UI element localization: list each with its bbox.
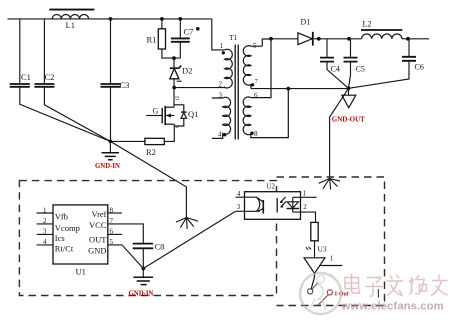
- svg-text:C8: C8: [155, 242, 165, 252]
- pin 3 Ics: [37, 233, 53, 235]
- svg-text:S: S: [173, 125, 179, 128]
- wire C3 vertical: [110, 19, 112, 141]
- phototransistor: [245, 197, 263, 213]
- dashed box output regulation section (right): [277, 177, 385, 306]
- ground GND-OUT (open triangle): [348, 88, 350, 95]
- svg-text:1: 1: [43, 206, 47, 214]
- resistor R1: [158, 29, 165, 49]
- transformer T1 primary winding pins 1-2: [225, 49, 233, 88]
- svg-text:D2: D2: [182, 66, 192, 76]
- transistor Q1 (MOSFET with body diode): [162, 105, 186, 126]
- svg-text:1: 1: [330, 255, 334, 263]
- resistor R2: [145, 138, 164, 144]
- svg-text:Q1: Q1: [188, 109, 198, 119]
- svg-text:6: 6: [110, 228, 114, 236]
- svg-text:Vref: Vref: [91, 209, 106, 219]
- svg-text:7: 7: [110, 217, 114, 225]
- capacitor C5: [350, 39, 352, 58]
- capacitor C1: [10, 84, 30, 87]
- wire C7 top lead: [179, 19, 181, 38]
- svg-text:2: 2: [303, 204, 307, 211]
- inductor L2: [361, 19, 402, 39]
- svg-text:5: 5: [253, 42, 257, 50]
- inductor L1: [49, 9, 94, 30]
- svg-text:2: 2: [43, 217, 47, 225]
- svg-text:C4: C4: [331, 65, 340, 74]
- svg-text:6: 6: [254, 92, 258, 100]
- svg-text:GND-OUT: GND-OUT: [332, 115, 365, 123]
- resistor R3 (opto series): [311, 222, 318, 240]
- optocoupler U2: [236, 183, 317, 223]
- svg-text:C6: C6: [415, 63, 424, 72]
- wire primary pin2 rail: [174, 87, 224, 89]
- wire R3 to U3: [314, 241, 316, 258]
- svg-text:D: D: [174, 96, 180, 100]
- svg-text:3: 3: [219, 92, 223, 100]
- wire gate stub: [146, 115, 162, 117]
- wire GND-IN stub: [109, 141, 111, 152]
- watermark characters: [345, 274, 448, 296]
- wire C1 top lead: [19, 19, 21, 84]
- svg-text:C5: C5: [356, 65, 365, 74]
- ground GND-IN (under C8): [142, 269, 144, 278]
- wire source to R2: [164, 124, 174, 141]
- capacitor C3: [101, 84, 121, 87]
- svg-text:8: 8: [110, 206, 114, 214]
- pin 6 OUT: [108, 233, 122, 235]
- ground crow-foot (right): [319, 179, 341, 190]
- wire C2 bottom diagonal: [44, 87, 110, 141]
- wire GND-OUT node down to crow-foot: [330, 88, 349, 178]
- svg-text:L1: L1: [66, 20, 75, 30]
- svg-text:R2: R2: [146, 147, 156, 157]
- svg-text:R1: R1: [147, 35, 157, 45]
- svg-text:Vfb: Vfb: [55, 212, 68, 222]
- terminal circle (U3 anode): [308, 289, 313, 294]
- svg-text:Rt/Ct: Rt/Ct: [55, 244, 74, 254]
- transformer T1 core: [235, 45, 238, 140]
- svg-text:VCC: VCC: [89, 220, 107, 230]
- wire artifact stub: [377, 289, 379, 298]
- svg-text:3: 3: [237, 204, 241, 211]
- ground GND-IN (input): [102, 153, 120, 160]
- capacitor C8: [133, 244, 153, 249]
- transformer T1 secondary winding pins 5-7: [243, 46, 262, 89]
- svg-text:GND-IN: GND-IN: [129, 291, 154, 298]
- svg-text:OUT: OUT: [89, 234, 107, 244]
- svg-text:U1: U1: [76, 267, 86, 277]
- svg-text:www.elecfans.com: www.elecfans.com: [341, 301, 444, 313]
- pin 2 lead down: [293, 212, 316, 222]
- svg-text:C1: C1: [21, 72, 31, 82]
- svg-text:C2: C2: [45, 72, 55, 82]
- svg-text:C7: C7: [184, 27, 194, 37]
- svg-text:5: 5: [110, 238, 114, 246]
- wire R1 C7 bottom join: [162, 43, 180, 59]
- LED emitter diode: [280, 197, 299, 212]
- pin 2 Vcomp: [37, 223, 53, 225]
- op-amp U1 (PWM controller box): [37, 205, 144, 277]
- pin 4 collector stub: [236, 196, 246, 198]
- shunt regulator U3 (TL431): [304, 247, 342, 289]
- wire D2 anode lead: [173, 58, 175, 68]
- svg-text:L2: L2: [363, 19, 372, 28]
- wire D2 to drain rail: [173, 79, 175, 107]
- transformer T1 secondary winding pins 3-4: [212, 97, 231, 138]
- svg-text:1: 1: [303, 191, 306, 198]
- svg-text:GND: GND: [88, 246, 106, 256]
- separator bar: [276, 198, 278, 213]
- wire opto emitter diagonal to GND junction: [143, 211, 235, 268]
- wire rail to D1: [271, 38, 298, 40]
- svg-text:1: 1: [220, 42, 224, 50]
- node junction dots top rail: [109, 17, 183, 143]
- svg-text:4: 4: [237, 191, 241, 198]
- diode D1: [298, 32, 313, 46]
- wire secondary common rail pins 7-8: [251, 88, 349, 90]
- wire R1 top lead: [161, 19, 163, 29]
- terminal circle (output): [327, 290, 332, 295]
- pin 3 emitter stub: [236, 210, 246, 212]
- watermark logo circle: [300, 273, 341, 314]
- dashed box feedback section (left): [19, 181, 276, 296]
- zener diode D2: [170, 66, 182, 82]
- capacitor C6: [408, 39, 410, 57]
- wire C2 top lead: [43, 19, 45, 84]
- pin 1 Vfb: [37, 212, 53, 214]
- wire terminal diagonal: [312, 283, 329, 306]
- pin 8 Vref: [108, 212, 122, 214]
- svg-text:C3: C3: [120, 80, 130, 90]
- capacitor C2: [34, 84, 54, 87]
- wire D1 cathode to L2 and output: [314, 38, 429, 40]
- wire R2 left to ground junction: [110, 140, 144, 142]
- wire top input rail: [8, 18, 212, 20]
- svg-text:Ics: Ics: [55, 233, 65, 243]
- wire pin1 drop: [212, 19, 225, 50]
- capacitor C7: [171, 38, 190, 41]
- svg-text:G: G: [153, 107, 159, 116]
- svg-text:4: 4: [218, 131, 222, 139]
- wire pin5 jog to output rail: [262, 39, 271, 46]
- svg-text:4: 4: [43, 238, 47, 246]
- pin 5 GND: [108, 245, 144, 269]
- svg-text:2: 2: [219, 80, 223, 88]
- svg-text:3: 3: [43, 228, 47, 236]
- svg-text:8: 8: [254, 130, 258, 138]
- svg-text:U3: U3: [318, 245, 327, 254]
- wire long diagonal to crow-foot ground: [110, 141, 186, 217]
- svg-text:T1: T1: [229, 33, 238, 42]
- svg-text:D1: D1: [301, 17, 311, 26]
- svg-text:Vcomp: Vcomp: [55, 223, 80, 233]
- pin 4 Rt/Ct: [37, 244, 53, 246]
- svg-text:U2: U2: [267, 183, 276, 191]
- wire C1 bottom diagonal: [20, 87, 111, 141]
- stray dot: [196, 27, 200, 31]
- capacitor C4: [326, 39, 328, 58]
- svg-text:GND-IN: GND-IN: [95, 163, 120, 170]
- pin 1 stub: [293, 196, 317, 198]
- transformer T1 secondary winding pins 6-8: [243, 39, 288, 138]
- ground crow-foot (left, under long diagonal): [176, 218, 198, 230]
- svg-text:7: 7: [255, 78, 259, 85]
- junction dots output rail: [317, 37, 410, 90]
- pin 7 VCC: [108, 224, 144, 244]
